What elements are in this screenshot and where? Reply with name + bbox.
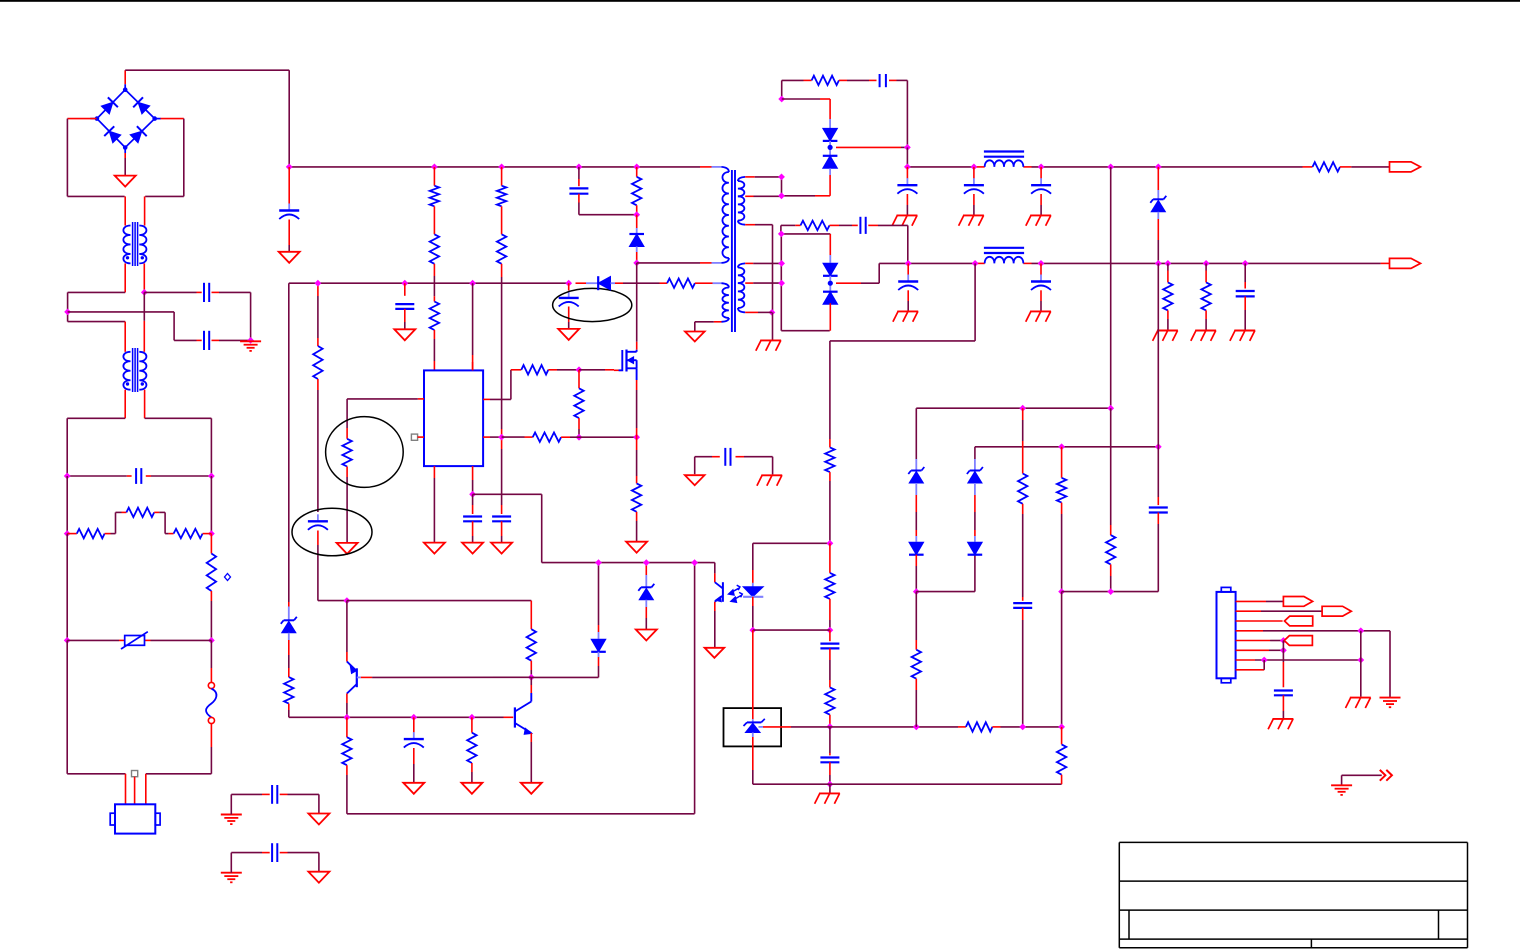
zener D8 (282, 621, 296, 633)
AC inlet plug J1 (115, 804, 155, 833)
wire Z chain 2 (974, 447, 976, 459)
capacitor C16 (317, 514, 319, 520)
diode D1 (clamp) (629, 234, 644, 247)
wire L1 left pin down (124, 263, 126, 292)
diode D6 (output rect lower) (823, 263, 838, 276)
junction sec lower top (778, 260, 785, 267)
wire Z chain 1 (915, 408, 917, 459)
wire D4 anode (829, 168, 831, 175)
wire cap C8 lead (1040, 167, 1042, 179)
wire C3 lead (404, 283, 406, 296)
wire R31 bottom (1061, 775, 1063, 785)
wire R5 stub (501, 167, 503, 186)
wire cap C10 lead (907, 263, 909, 274)
inductor L3 (984, 150, 1024, 152)
wire Rsense (636, 437, 638, 450)
wire CF2 right (280, 852, 288, 854)
inductor L4 (984, 247, 1024, 249)
capacitor C8 (1040, 178, 1042, 184)
ground (primary side) (685, 475, 705, 485)
no-connect square U1 pin (411, 434, 417, 440)
resistor R32 (912, 650, 921, 679)
wire D9 anode (598, 652, 600, 657)
junction clamp node (633, 211, 640, 218)
wire C12 stub (1244, 263, 1246, 282)
wire +V1 rail (906, 147, 908, 167)
wire C7 to ground (973, 194, 975, 205)
resistor R26 (825, 687, 834, 714)
connector J2 pin 3 wire (1236, 620, 1283, 622)
junction R17/row2 (576, 434, 583, 441)
wire L1-L2 link right (143, 292, 145, 320)
wire Y-bridge row (695, 456, 712, 458)
wire R32 bottom (915, 679, 917, 690)
wire left rail down (66, 476, 68, 534)
wire R30 chain (1110, 408, 1112, 525)
wire bottom rail left (66, 640, 68, 773)
junction U1 FB node (469, 491, 476, 498)
junction CY ground (247, 337, 254, 344)
wire OVP second row (975, 446, 1158, 448)
thermal fuse F1 (208, 682, 214, 688)
ground (aux winding) (685, 332, 705, 342)
wire L1 right pin down (143, 263, 145, 293)
junction snubber cap top (576, 164, 583, 171)
wire bridge AC-right stub (161, 118, 184, 120)
wire C18-R26 (829, 648, 831, 660)
wire cross link upper-left (68, 291, 126, 293)
wire D7 anode (829, 303, 831, 315)
resistor R5 (497, 186, 506, 207)
wire X-cap row (67, 475, 127, 477)
wire OVP top row (916, 407, 1110, 409)
junction pin6 (1280, 647, 1287, 654)
wire C4 lead (568, 283, 570, 290)
wire opto emitter (714, 602, 716, 611)
wire sec lower top lead (745, 262, 753, 264)
wire D13-D14 (974, 483, 976, 495)
capacitor C3 (395, 303, 414, 305)
capacitor C2 (clamp) (569, 187, 588, 189)
wire source drop (636, 380, 638, 390)
junction cross-link (64, 309, 71, 316)
wire REF row (791, 726, 830, 728)
wire IC VCC drop (472, 283, 474, 355)
ground (Q3) (521, 783, 542, 794)
junction zener bottom (1155, 260, 1162, 267)
connector J2 pin 6 wire (1236, 649, 1269, 651)
wire R13 gnd (1167, 310, 1169, 319)
wire startup resistor chain (346, 399, 348, 428)
wire right rail down (210, 476, 212, 534)
wire C17 lead (413, 717, 415, 732)
wire C8 to ground (1040, 194, 1042, 205)
wire sec upper bottom lead (745, 224, 755, 226)
wire bulk cap to ground (288, 220, 290, 246)
connector J2 pin 5 wire (1236, 640, 1270, 642)
wire R14 gnd (1205, 310, 1207, 319)
wire winding bus (781, 177, 783, 196)
wire R5-R6 (501, 206, 503, 234)
junction R29/row (1058, 588, 1065, 595)
wire R25 chain (829, 543, 831, 564)
wire plug pin 3 (145, 774, 147, 805)
junction R31 top (1058, 724, 1065, 731)
wire D12 down (915, 555, 917, 566)
wire C6 to ground (906, 194, 908, 205)
wire R16 to gate node (548, 369, 557, 371)
diode D9 (591, 639, 606, 652)
junction D6/D7 (blue) (828, 281, 833, 286)
diode D7 (output rect lower) (823, 292, 838, 305)
junction CX1 right (208, 473, 215, 480)
resistor R7 (clamp) (632, 177, 641, 206)
wire pin7-pin8 tie (1263, 660, 1265, 670)
wire bottom rail right (146, 773, 212, 775)
wire C5 right (889, 79, 897, 81)
capacitor C19 (820, 756, 839, 758)
wire C3 to ground (404, 309, 406, 322)
resistor R3 (430, 234, 439, 263)
wire D6-D7 node (829, 276, 831, 292)
wire snubber R stub (636, 167, 638, 177)
zener D5 (rail clamp) (1151, 200, 1165, 212)
connector J2 pin 4 wire (1236, 630, 1263, 632)
output port +V1 (1390, 162, 1421, 172)
wire rect mid to bus (836, 146, 901, 148)
capacitor C7 (973, 178, 975, 184)
ground (C3) (394, 329, 415, 340)
ground (C22) (1273, 718, 1294, 720)
ground (R15) (337, 543, 358, 554)
junction sec lower tap (778, 280, 785, 287)
zener D11 (909, 472, 923, 484)
wire gnd stub (829, 784, 831, 792)
wire snubber mid (636, 205, 638, 214)
wire C16 down (317, 531, 319, 546)
transistor Q2 (PNP) (356, 668, 358, 687)
bridge diode D-d (bottom-right) (137, 126, 147, 136)
wire U1 bottom pin 1 (433, 466, 435, 478)
wire VCC rail corner down (288, 283, 290, 602)
capacitor C13 (463, 515, 482, 517)
capacitor CF1 (271, 785, 273, 804)
wire U1 right pin 1 (drive) (483, 398, 490, 400)
capacitor C22 (1274, 689, 1293, 691)
resistor R13 (1163, 282, 1172, 310)
capacitor C18 (820, 642, 839, 644)
resistor RT1 (inrush) (207, 554, 216, 592)
wire MOV to fuse (210, 640, 212, 668)
wire earth link (1342, 774, 1382, 776)
wire D4 return (815, 195, 830, 197)
junction MOV right (208, 637, 215, 644)
resistor R4 (430, 302, 439, 331)
junction winding top (778, 174, 785, 181)
wire R24 gnd (471, 763, 473, 772)
wire C14 gnd (501, 521, 503, 536)
capacitor C10 (907, 275, 909, 281)
wire R2 stub (433, 167, 435, 186)
wire mid row (1062, 591, 1159, 593)
capacitor CY2 (203, 331, 205, 350)
junction OVP row/riser (1107, 405, 1114, 412)
wire R25 bottom (829, 599, 831, 620)
common-mode choke L2 (123, 352, 130, 390)
junction +V2 cap1 (905, 260, 912, 267)
bridge corner nodes (123, 87, 128, 92)
resistor R22 (527, 629, 536, 661)
wire AC loop right side (183, 119, 185, 197)
ground (earth, pin4) (1380, 697, 1401, 699)
junction R row right (208, 530, 215, 537)
wire Y-cap row A (144, 291, 196, 293)
junction gate node (576, 366, 583, 373)
wire sec lower tap lead (745, 282, 753, 284)
ground (fb) (819, 792, 840, 794)
ground (opto emitter) (705, 648, 725, 658)
junction LED cathode (749, 627, 756, 634)
diode D2 (VCC rectifier, points left) (586, 282, 598, 284)
ground (R19) (626, 542, 647, 553)
wire R28 divider (1022, 408, 1024, 420)
wire C10 to ground (907, 290, 909, 301)
capacitor C1 (bulk electrolytic) (288, 204, 290, 210)
wire R18 to gate row (561, 436, 570, 438)
wire Q2 base row (361, 676, 372, 678)
junction anode rail (827, 781, 834, 788)
wire D2 to R8 (615, 282, 623, 284)
wire sec upper tap lead (745, 195, 753, 197)
connector J2 pin 1 wire (1236, 600, 1266, 602)
wire R23 chain (346, 717, 348, 728)
resistor R18 (CS filter) (533, 433, 561, 442)
junction LED feed right (827, 540, 834, 547)
capacitor C5 (snubber) (879, 74, 881, 87)
ground (C6) (897, 214, 918, 216)
ground (Y-caps) (240, 340, 261, 342)
wire fuse to bottom rail (210, 724, 212, 747)
ground (secondary side) (761, 474, 782, 476)
wire snubber2 riser (780, 225, 782, 234)
wire CS row (502, 436, 525, 438)
wire R12 down (829, 472, 831, 481)
capacitor C12 (1236, 290, 1255, 292)
ground (C11) (1030, 310, 1051, 312)
junction cap C12 (1242, 260, 1249, 267)
wire CY1 right (212, 291, 220, 293)
zener D13 (968, 472, 982, 484)
wire R20 to rail (288, 704, 290, 710)
wire right rail to RT1 (210, 534, 212, 545)
wire R30 down (1110, 564, 1112, 576)
resistor R6 (497, 234, 506, 263)
wire snubber1 top (782, 79, 804, 81)
junction pin5 (1280, 637, 1287, 644)
transistor Q3 (NPN) (514, 707, 516, 727)
wire sampling R32 (915, 592, 917, 640)
wire snubber1 left riser (781, 80, 783, 99)
wire LED feed down (974, 263, 976, 341)
junction D3 feed (778, 96, 785, 103)
wire MOV row (67, 639, 119, 641)
wire comp chain (829, 630, 831, 641)
connector J2 pin 2 wire (1236, 610, 1261, 612)
wire Q3 collector (530, 693, 532, 702)
junction LED feed (972, 260, 979, 267)
wire R1a-R1b jog (105, 533, 111, 535)
resistor R31 (1057, 744, 1066, 774)
wire FB link to opto (473, 493, 542, 495)
wire R2-R3 (433, 206, 435, 234)
junction bleeder R14 (1203, 260, 1210, 267)
common-mode choke L1 (123, 226, 130, 264)
junction box corner (778, 231, 785, 238)
junction Q3 drive node (528, 674, 535, 681)
rectifier box left (780, 234, 782, 331)
resistor R24 (467, 733, 476, 763)
capacitor C15 (Y-cap) (724, 448, 726, 466)
ground (C17) (403, 783, 424, 794)
junction divider top (1019, 405, 1026, 412)
junction VCC chain top (315, 280, 322, 287)
ground (earth, CF2) (221, 872, 242, 874)
wire D5 anode (1157, 212, 1159, 219)
wire left rail to MOV row (66, 534, 68, 641)
resistor R17 (574, 388, 583, 418)
wire C19 down (829, 762, 831, 775)
wire C11 to ground (1040, 290, 1042, 301)
bridge diode D-c (bottom-left) (104, 126, 114, 136)
TL431 box (724, 708, 782, 746)
ground (C8) (1030, 214, 1051, 216)
wire R17 pulldown (578, 370, 580, 380)
resistor R15 (circled) (342, 439, 351, 467)
wire R22 bottom (530, 661, 532, 670)
wire D8 down (288, 633, 290, 640)
title block (1119, 841, 1467, 843)
ground (C7) (963, 214, 984, 216)
wire VCC zener chain (288, 602, 290, 607)
wire C22 gnd (1282, 695, 1284, 711)
wire R1b-R1c jog (154, 511, 159, 513)
junction D10 (643, 559, 650, 566)
wire LED cathode row (753, 629, 830, 631)
MOSFET Q1 (614, 369, 622, 371)
wire C13 gnd (472, 521, 474, 536)
resistor R1a (77, 529, 105, 538)
port arrow pin1 (1283, 597, 1312, 607)
wire CF2 left (230, 853, 232, 873)
wire L2 pins down (124, 390, 126, 419)
ground (C13) (462, 543, 483, 554)
resistor R12 (opto LED series) (825, 447, 834, 472)
wire R28 down (1022, 504, 1024, 514)
junction fb return (691, 559, 698, 566)
port arrow pin2 (1322, 606, 1351, 616)
junction IC VCC (469, 280, 476, 287)
resistor R25 (825, 573, 834, 599)
resistor R1c (174, 529, 203, 538)
junction cap C3 top (401, 280, 408, 287)
wire bridge AC-left stub (67, 118, 96, 120)
wire fb diode chain (598, 563, 600, 625)
ground (earth, CF1) (221, 814, 242, 816)
junction sampling R mid (913, 724, 920, 731)
wire Q2 collector riser (346, 601, 348, 652)
capacitor C21 (1149, 506, 1168, 508)
wire D3 feed (782, 98, 820, 100)
resistor R14 (1201, 282, 1210, 310)
junction +V2 cap2 (1038, 260, 1045, 267)
capacitor CY1 (203, 283, 205, 302)
wire D11-D12 (915, 483, 917, 495)
junction rect out (904, 144, 911, 151)
diode D12 (909, 542, 924, 555)
connector J2 pin 8 wire (1236, 669, 1265, 671)
wire R11-C9 (830, 224, 840, 226)
wire C12 gnd (1244, 296, 1246, 310)
chevron port (1380, 770, 1386, 781)
wire VCC cap chain (317, 283, 319, 296)
wire clamp to diode (636, 215, 638, 228)
wire cap C6 lead (906, 167, 908, 179)
ground (CF1 right) (308, 814, 329, 825)
junction fb diode (595, 559, 602, 566)
junction snubber R top (633, 164, 640, 171)
bridge rectifier BD1 diamond (97, 90, 155, 148)
resistor R27 (966, 722, 993, 731)
junction row2/R29 (1058, 443, 1065, 450)
wire R4 to IC pin (433, 330, 435, 339)
wire R31 sampling (1061, 592, 1063, 727)
transformer T1 core (731, 170, 733, 332)
port arrow pin5 (input) (1284, 636, 1312, 646)
wire VCC rail (289, 282, 570, 284)
junction divider/REF (1019, 724, 1026, 731)
wire Q3 emitter (530, 733, 532, 742)
wire Y-bridge left (694, 457, 696, 475)
wire cross to Y-cap row B (68, 311, 175, 313)
junction row2/zchain (1155, 443, 1162, 450)
junction pin7 right (1357, 657, 1364, 664)
wire bulk cap lead (288, 167, 290, 182)
wire C21 chain (1157, 447, 1159, 497)
wire R19 gnd (636, 512, 638, 521)
wire CF1 left (230, 794, 232, 814)
wire bridge minus lead (124, 153, 126, 158)
junction winding tap (778, 192, 785, 199)
wire U1 top pin 2 stub (472, 362, 474, 370)
junction L1 right (141, 289, 148, 296)
output port +V2 (1390, 258, 1421, 268)
bridge diode D-b (right-top) (133, 97, 143, 107)
diode D4 (output rect upper) (823, 156, 838, 169)
junction R row left (64, 530, 71, 537)
rectifier box bottom (781, 330, 829, 332)
resistor R20 (284, 677, 293, 704)
junction bulk cap (286, 164, 293, 171)
capacitor C4 (VCC electrolytic) (568, 291, 570, 297)
wire R10 to connector (1340, 166, 1351, 168)
port arrow pin3 (input) (1285, 616, 1313, 626)
ground (CF2 right) (308, 872, 329, 883)
resistor R21 (313, 346, 322, 379)
wire anode rail (753, 783, 1062, 785)
optocoupler U2 LED (752, 543, 754, 570)
junction C17 (410, 714, 417, 721)
wire sec upper top lead (745, 176, 755, 178)
